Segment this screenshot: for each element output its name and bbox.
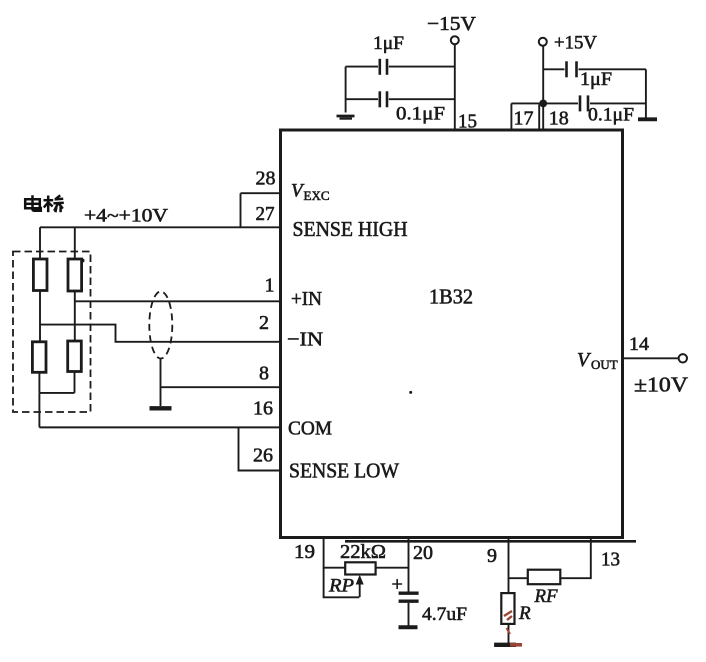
- wire bridge bottom node: [39, 392, 74, 394]
- svg-text:19: 19: [294, 541, 315, 563]
- stray dot: [409, 391, 412, 394]
- potentiometer RP wiper arrow: [359, 580, 361, 597]
- capacitor C3 1uF right: [543, 68, 564, 70]
- svg-text:RF: RF: [534, 586, 558, 607]
- svg-text:28: 28: [256, 167, 276, 189]
- svg-text:−IN: −IN: [287, 329, 323, 351]
- resistor R4 bridge bottom-right: [68, 341, 82, 372]
- wire pin 20 lead: [408, 539, 410, 592]
- svg-text:26: 26: [253, 445, 273, 467]
- wire -15V to pin 15: [454, 44, 456, 129]
- capacitor C2 0.1uF: [346, 98, 378, 100]
- wire pin 8: [161, 386, 281, 388]
- wire bridge right branch: [74, 227, 76, 393]
- pin 27 box: [241, 193, 281, 227]
- wire pin 9 lead: [508, 539, 510, 593]
- red mark on wire: [507, 628, 511, 634]
- red mark ground: [510, 643, 522, 647]
- svg-text:1μF: 1μF: [580, 69, 612, 90]
- resistor R1 bridge top-left: [33, 259, 47, 291]
- wire RP wiper return: [324, 568, 360, 598]
- capacitor C4 0.1uF right: [511, 102, 578, 104]
- terminal -15V: [451, 36, 459, 44]
- svg-text:16: 16: [253, 398, 273, 420]
- wire COM: [39, 426, 280, 428]
- label dianqiao bridge (drawn strokes): [25, 195, 64, 212]
- resistor R: [501, 593, 514, 624]
- svg-text:13: 13: [601, 549, 620, 571]
- pin 17 box tick left: [510, 103, 512, 129]
- wire pin 9 to RF: [509, 577, 528, 579]
- wire bridge bottom to COM: [38, 393, 40, 428]
- capacitor C5 4.7uF: [399, 592, 419, 595]
- resistor RF: [528, 570, 561, 585]
- svg-text:2: 2: [259, 312, 269, 334]
- svg-text:22kΩ: 22kΩ: [340, 541, 386, 563]
- svg-text:0.1μF: 0.1μF: [588, 105, 634, 126]
- terminal +15V: [539, 38, 547, 46]
- svg-text:SENSE HIGH: SENSE HIGH: [293, 217, 408, 241]
- pin 26 box: [239, 427, 281, 470]
- wire right cap vertical: [645, 69, 647, 117]
- stray speck: [81, 259, 85, 263]
- resistor R2 bridge top-right: [68, 259, 82, 291]
- shield ellipse dashed: [149, 292, 172, 359]
- resistor R3 bridge bottom-left: [32, 342, 46, 373]
- svg-text:±10V: ±10V: [634, 373, 688, 397]
- svg-text:+15V: +15V: [554, 34, 598, 54]
- svg-text:0.1μF: 0.1μF: [396, 104, 445, 125]
- svg-text:EXC: EXC: [304, 188, 330, 203]
- op-amp U1 1B32 IC body: [281, 130, 623, 538]
- wire R bottom: [508, 624, 510, 643]
- svg-text:14: 14: [629, 334, 650, 355]
- wire -IN with jog: [40, 325, 281, 342]
- red mark on resistor R: [504, 611, 512, 620]
- ground shield: [150, 406, 172, 410]
- wire cap 4.7uF bottom: [408, 603, 410, 626]
- ground top-right: [638, 117, 657, 121]
- svg-text:27: 27: [256, 203, 275, 225]
- wire +15V down to pin 18: [542, 46, 544, 129]
- svg-text:9: 9: [487, 545, 497, 567]
- wire cap left vertical: [345, 67, 347, 113]
- svg-text:RP: RP: [328, 576, 354, 597]
- terminal V_OUT: [679, 354, 687, 362]
- ground 4.7uF: [399, 625, 418, 629]
- svg-text:+4~+10V: +4~+10V: [84, 206, 168, 227]
- svg-text:−15V: −15V: [427, 13, 477, 35]
- svg-text:15: 15: [458, 111, 477, 133]
- wire bridge left branch: [38, 227, 41, 393]
- svg-text:20: 20: [413, 542, 433, 564]
- svg-text:COM: COM: [288, 418, 332, 440]
- svg-text:R: R: [518, 603, 531, 624]
- wire V_OUT: [623, 357, 679, 359]
- wire shield stem: [160, 359, 162, 406]
- svg-text:+IN: +IN: [291, 288, 322, 310]
- node junction dot: [539, 100, 547, 108]
- ground R: [494, 643, 516, 647]
- svg-text:18: 18: [549, 108, 569, 130]
- bridge dashed box: [13, 252, 91, 413]
- wire excitation +4..+10V to pin 27: [40, 226, 281, 228]
- svg-text:V: V: [577, 349, 592, 371]
- svg-text:4.7uF: 4.7uF: [422, 604, 467, 625]
- wire +IN: [75, 300, 281, 302]
- svg-text:1: 1: [265, 275, 275, 297]
- svg-text:OUT: OUT: [591, 357, 618, 372]
- wire pin 19 lead: [324, 539, 346, 568]
- ground top-left: [337, 115, 355, 118]
- capacitor C1 1uF: [346, 66, 378, 68]
- wire IC bottom doubled edge: [345, 540, 636, 543]
- svg-text:17: 17: [514, 108, 534, 130]
- svg-text:8: 8: [259, 363, 269, 385]
- svg-text:1B32: 1B32: [429, 285, 473, 309]
- wire RF to pin 13: [560, 539, 591, 578]
- pin 17 box tick right: [538, 105, 540, 130]
- svg-text:1μF: 1μF: [373, 33, 404, 54]
- wire RP right to pin 20: [376, 567, 409, 569]
- svg-text:SENSE LOW: SENSE LOW: [289, 459, 399, 483]
- potentiometer RP body: [345, 562, 375, 574]
